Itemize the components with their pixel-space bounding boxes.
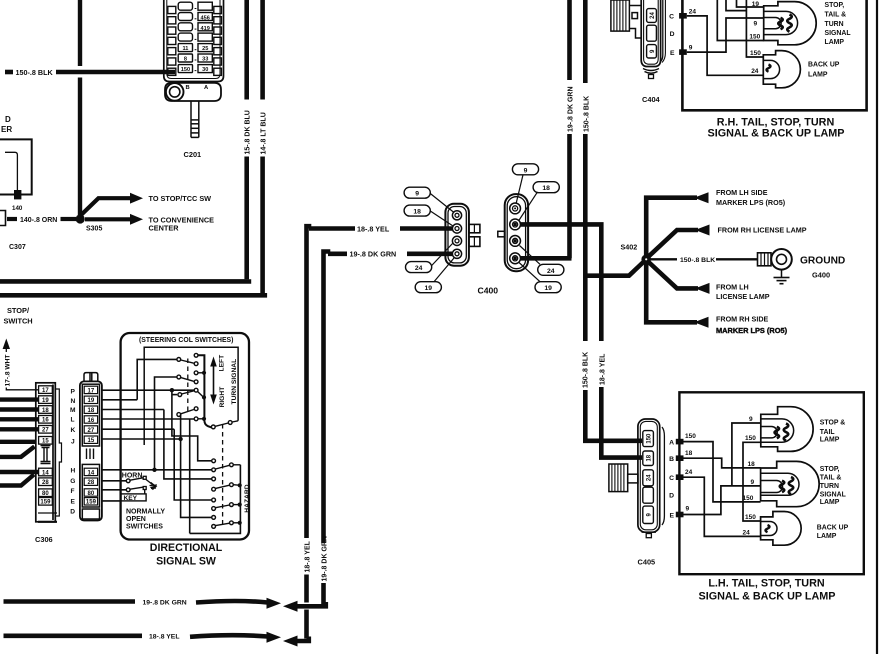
lamp LH stop/tail/turn xyxy=(761,461,820,506)
svg-text:24: 24 xyxy=(689,9,697,16)
key switch contact xyxy=(126,488,130,492)
svg-text:C: C xyxy=(669,14,674,21)
svg-text:STOP,: STOP, xyxy=(825,2,845,9)
key blade xyxy=(130,487,143,489)
callout 9 (right) xyxy=(512,164,538,175)
C201 stem xyxy=(191,101,199,137)
C201 fuse values 456 419 25 33 30 xyxy=(201,16,210,73)
svg-text:19: 19 xyxy=(42,398,49,404)
wire row M from connector xyxy=(102,409,164,411)
turn contact c8 xyxy=(178,393,182,397)
wire 18-.8 YEL (right segment to pin) xyxy=(400,226,452,231)
wire with right arrowhead xyxy=(196,601,268,603)
svg-text:80: 80 xyxy=(88,491,95,497)
hazard pair 4 contacts xyxy=(212,516,216,520)
svg-text:18-.8 YEL: 18-.8 YEL xyxy=(599,353,606,385)
stub P riser to contact c8 xyxy=(172,394,177,396)
wire 19-.8 DK GRN vertical from top xyxy=(567,0,572,80)
terminal 140 black square xyxy=(14,190,21,199)
key contact drop wire xyxy=(144,490,146,494)
svg-text:LEFT: LEFT xyxy=(219,354,226,372)
svg-text:TURN: TURN xyxy=(825,21,844,28)
junction dot riser-J xyxy=(178,437,182,441)
connector C400 female half xyxy=(505,194,528,271)
wire branch FROM RH LICENSE LAMP xyxy=(648,230,698,257)
svg-text:E: E xyxy=(670,50,675,57)
turn pivot contact xyxy=(211,425,215,429)
svg-text:16: 16 xyxy=(88,418,95,424)
C201 tiny row letters xyxy=(195,9,197,71)
svg-text:RIGHT: RIGHT xyxy=(219,386,226,408)
riser H to turn contact c5 xyxy=(155,377,177,470)
svg-text:H: H xyxy=(71,467,76,474)
wire to ground G400 xyxy=(650,258,677,260)
key fixed contact square xyxy=(143,487,146,490)
svg-text:11: 11 xyxy=(182,46,188,52)
backup lamp filament xyxy=(767,65,771,72)
wire 19-.8 DK GRN bottom corner with arrowhead xyxy=(296,602,326,606)
svg-text:9: 9 xyxy=(686,505,690,512)
svg-text:G400: G400 xyxy=(812,270,830,279)
wire 19-.8 DK GRN from C400 left pin4 (left segment) xyxy=(328,252,347,257)
KEY box xyxy=(121,494,146,501)
mechanical link dashed (hazard) xyxy=(222,424,224,526)
splice S305 xyxy=(76,214,85,223)
turn contact c3 xyxy=(194,362,198,366)
upper cell group xyxy=(82,384,99,446)
svg-text:STOP/: STOP/ xyxy=(7,306,29,315)
C201 fuse cells middle column xyxy=(178,2,192,72)
svg-text:24: 24 xyxy=(751,68,759,75)
connector C400 male half xyxy=(445,204,469,266)
svg-text:17: 17 xyxy=(88,388,95,394)
key bars between groups xyxy=(87,449,94,460)
C400 male pin 1 xyxy=(452,211,461,220)
lamp labels xyxy=(817,419,849,540)
svg-text:C400: C400 xyxy=(478,286,499,296)
svg-text:16: 16 xyxy=(42,418,49,424)
svg-text:14-.8 LT BLU: 14-.8 LT BLU xyxy=(260,112,267,154)
junction dot riser-H xyxy=(152,468,156,472)
svg-text:15: 15 xyxy=(42,439,49,445)
svg-text:A: A xyxy=(669,439,674,446)
svg-text:456: 456 xyxy=(201,16,210,22)
svg-text:TAIL &: TAIL & xyxy=(825,12,847,19)
riser P down to hazard p1 upper xyxy=(172,390,212,461)
wire vertical at x=80 upper segment xyxy=(78,0,82,66)
wire row P from connector xyxy=(102,389,195,391)
wire row L from connector xyxy=(102,418,195,420)
svg-text:MARKER LPS (RO5): MARKER LPS (RO5) xyxy=(716,326,788,335)
svg-text:E: E xyxy=(71,498,76,505)
blade c2-c3 xyxy=(181,360,194,363)
C400 male keying tabs xyxy=(469,224,480,232)
C201 index circle xyxy=(166,83,184,101)
svg-text:24: 24 xyxy=(650,12,656,19)
svg-text:SIGNAL SW: SIGNAL SW xyxy=(156,556,216,568)
C400 female pin 4 xyxy=(510,253,521,264)
pivot blade xyxy=(215,423,228,426)
svg-text:419: 419 xyxy=(201,26,210,32)
C400 female pin 3 xyxy=(510,236,521,247)
C201 lower shell with index hole xyxy=(165,83,221,101)
svg-text:E: E xyxy=(669,512,674,519)
wire row H from connector to hazard xyxy=(102,469,212,471)
ground symbol xyxy=(781,270,783,278)
svg-text:159: 159 xyxy=(86,500,97,506)
wire row J from connector xyxy=(102,438,181,440)
svg-text:150: 150 xyxy=(749,33,760,40)
svg-text:D: D xyxy=(670,31,675,38)
wire into C306 pin 18 xyxy=(0,407,39,411)
svg-text:9: 9 xyxy=(689,45,693,52)
blade c9-c10 xyxy=(181,410,194,414)
svg-text:140-.8 ORN: 140-.8 ORN xyxy=(20,217,57,224)
svg-text:9: 9 xyxy=(754,21,758,28)
svg-text:LAMP: LAMP xyxy=(825,39,845,46)
svg-text:14: 14 xyxy=(88,470,95,476)
turn signal direction arrow xyxy=(213,363,215,398)
svg-text:CENTER: CENTER xyxy=(149,223,180,232)
wire 19-.8 DK GRN lower vertical xyxy=(321,583,326,604)
blade c8-c7 xyxy=(182,391,194,394)
wire stub from top xyxy=(726,0,746,11)
svg-text:D: D xyxy=(70,509,75,516)
svg-text:C405: C405 xyxy=(638,558,656,567)
svg-text:LAMP: LAMP xyxy=(808,72,828,79)
svg-text:150: 150 xyxy=(685,433,696,440)
turn contact c9 xyxy=(177,413,181,417)
svg-text:27: 27 xyxy=(88,428,95,434)
wire 18-.8 YEL to C405 xyxy=(601,387,642,458)
svg-text:OPEN: OPEN xyxy=(126,516,146,523)
svg-text:140: 140 xyxy=(12,205,23,212)
svg-text:KEY: KEY xyxy=(124,495,138,502)
svg-text:27: 27 xyxy=(42,428,49,434)
svg-text:L: L xyxy=(71,417,75,424)
C400 female keying tab xyxy=(498,231,505,237)
riser L down to hazard return bus xyxy=(189,419,191,533)
riser M-row corner down to hazard p2 xyxy=(164,410,212,479)
horn fixed contact square xyxy=(143,476,146,479)
svg-text:15: 15 xyxy=(88,438,95,444)
inner frame xyxy=(144,347,238,445)
svg-text:LICENSE LAMP: LICENSE LAMP xyxy=(716,292,770,301)
wire 150-.8 BLK lower vertical to C405 xyxy=(585,390,642,441)
svg-text:18: 18 xyxy=(413,209,421,216)
component box at left edge (cut off) xyxy=(0,139,32,194)
wire 18-.8 YEL bottom left xyxy=(4,633,143,638)
svg-text:L.H. TAIL, STOP, TURN: L.H. TAIL, STOP, TURN xyxy=(708,578,825,590)
svg-text:B: B xyxy=(186,85,190,91)
C306 cells column xyxy=(39,386,53,505)
svg-text:C404: C404 xyxy=(642,95,661,104)
svg-text:19-.8 DK GRN: 19-.8 DK GRN xyxy=(350,250,397,259)
svg-text:K: K xyxy=(71,427,76,434)
wire 19-.8 DK GRN corner down xyxy=(324,252,331,544)
turn contact c4 + stub to bus xyxy=(194,371,198,375)
wire 14-.8 LT BLU vertical + corner to left xyxy=(260,0,265,100)
svg-text:159: 159 xyxy=(40,500,51,506)
hazard pair 1 contacts xyxy=(212,459,216,463)
wire 150 from top xyxy=(717,0,763,41)
svg-text:LAMP: LAMP xyxy=(820,437,840,444)
C400 female pin 2 xyxy=(510,219,521,230)
wire vertical at x=80 lower segment to S305 xyxy=(78,78,82,217)
keying tab on top xyxy=(84,373,98,382)
callout 9 (left) xyxy=(404,187,430,198)
svg-text:SIGNAL: SIGNAL xyxy=(825,30,851,37)
svg-text:9: 9 xyxy=(415,191,419,198)
svg-text:B: B xyxy=(669,456,674,463)
directional signal switch outer box xyxy=(121,333,249,540)
svg-text:9: 9 xyxy=(751,479,755,486)
page border right xyxy=(876,0,878,654)
C306 cell numbers xyxy=(40,388,51,506)
wire Y-branch below pin 14 xyxy=(0,475,34,486)
wire 150-.8 BLK vertical from top xyxy=(583,0,588,83)
C400 female pin 1 xyxy=(510,203,521,214)
svg-text:24: 24 xyxy=(743,529,751,536)
callout 18 (right) xyxy=(533,182,559,193)
C400 male pin 4 xyxy=(452,249,461,258)
C201 fuse cells right column xyxy=(198,2,212,72)
C404 cells xyxy=(647,9,657,58)
svg-text:SIGNAL & BACK UP LAMP: SIGNAL & BACK UP LAMP xyxy=(708,127,845,139)
wire branch FROM LH SIDE MARKER xyxy=(646,198,697,256)
ring terminal xyxy=(758,253,772,266)
pivot contact right xyxy=(228,421,232,425)
svg-text:19-.8 DK GRN: 19-.8 DK GRN xyxy=(143,599,187,606)
svg-text:S402: S402 xyxy=(621,243,638,252)
svg-text:19: 19 xyxy=(425,285,433,292)
svg-text:TO STOP/TCC SW: TO STOP/TCC SW xyxy=(149,194,212,203)
lamp filaments xyxy=(778,18,783,29)
wire 150 BLK branch to S402 xyxy=(585,261,645,276)
splice S402 xyxy=(641,254,651,264)
wire 19 from top xyxy=(737,0,764,7)
turn signal bus xyxy=(198,355,211,427)
svg-text:8: 8 xyxy=(184,56,187,62)
wire 150 branch to backup lamp xyxy=(746,0,763,57)
wire 19-.8 DK GRN (right segment to pin) xyxy=(407,252,452,257)
connector C307 edge bracket xyxy=(0,211,6,226)
callout 24 (right) xyxy=(538,264,564,275)
svg-text:150: 150 xyxy=(181,67,190,73)
wire 15-.8 DK BLU vertical + corner to left xyxy=(244,0,249,100)
lamp LH back up xyxy=(761,512,802,546)
callout 19 (right) xyxy=(535,282,561,293)
C400 male pin 3 xyxy=(452,236,461,245)
svg-text:SIGNAL: SIGNAL xyxy=(820,492,846,499)
wire C400 female pin4 to vertical xyxy=(520,256,572,261)
cell numbers xyxy=(86,388,97,505)
wire 18-.8 YEL below crossover xyxy=(304,610,309,639)
svg-text:150: 150 xyxy=(647,433,653,444)
wire row K from connector xyxy=(102,428,174,430)
wire 9 riser to lamp1 xyxy=(732,423,761,486)
wire with right arrowhead xyxy=(190,635,268,637)
svg-text:19: 19 xyxy=(88,398,95,404)
horn switch contact xyxy=(126,479,130,483)
svg-text:19: 19 xyxy=(544,285,552,292)
svg-text:G: G xyxy=(70,478,75,485)
horn blade xyxy=(130,478,143,480)
svg-text:150-.8 BLK: 150-.8 BLK xyxy=(582,352,589,388)
svg-text:24: 24 xyxy=(685,469,693,476)
svg-text:18: 18 xyxy=(88,408,95,414)
wire arrow TO STOP/TCC SW xyxy=(80,198,131,216)
turn contact c6 xyxy=(194,380,198,384)
svg-text:N: N xyxy=(71,398,76,405)
riser K down to hazard p3 upper xyxy=(174,429,212,500)
svg-text:FROM LH: FROM LH xyxy=(716,282,749,291)
svg-text:14: 14 xyxy=(42,470,49,476)
wire into C306 pin 14 xyxy=(0,470,39,474)
wire into C306 pin 15 xyxy=(0,440,36,444)
svg-text:24: 24 xyxy=(547,268,555,275)
svg-text:M: M xyxy=(70,407,76,414)
svg-text:TAIL: TAIL xyxy=(820,429,835,436)
wire row N from connector xyxy=(102,399,137,401)
wire 140-.8 ORN to splice xyxy=(61,217,77,221)
wire 140-.8 ORN stub xyxy=(7,217,17,221)
svg-text:TURN: TURN xyxy=(820,483,839,490)
connector C404 body xyxy=(641,0,665,79)
callout 18 (left) xyxy=(404,205,430,216)
C400 male pin 2 xyxy=(452,224,461,233)
turn contact c5 xyxy=(177,375,181,379)
hazard pair 3 contacts xyxy=(212,498,216,502)
turn contact c11 + stub to bus dot xyxy=(194,417,198,421)
lamp1 filaments xyxy=(775,427,780,438)
svg-text:33: 33 xyxy=(202,56,208,62)
svg-text:25: 25 xyxy=(202,46,208,52)
lamp RH back up xyxy=(763,51,800,88)
wire 18-.8 YEL from C400 left pin2 (left segment) xyxy=(309,226,355,231)
svg-text:150-.8 BLK: 150-.8 BLK xyxy=(16,68,54,77)
svg-text:24: 24 xyxy=(415,265,423,272)
svg-text:FROM RH SIDE: FROM RH SIDE xyxy=(716,315,769,324)
wire 18-.8 YEL corner down xyxy=(307,226,312,538)
svg-text:LAMP: LAMP xyxy=(820,499,840,506)
blade c5-c6 xyxy=(181,378,194,382)
turn contact c7 feed + stub to bus dot xyxy=(194,388,198,392)
svg-text:19: 19 xyxy=(752,1,760,8)
svg-text:150-.8 BLK: 150-.8 BLK xyxy=(583,96,590,132)
connector C201 fuse block xyxy=(164,0,224,82)
wire 18-.8 YEL lower vertical xyxy=(304,575,309,603)
wire thin inside box to terminal 140 xyxy=(5,152,17,190)
C405 harness side hatched block xyxy=(609,464,638,492)
svg-text:150: 150 xyxy=(745,435,756,442)
wire branch FROM RH SIDE MARKER xyxy=(646,263,697,323)
svg-text:17: 17 xyxy=(42,388,49,394)
pivot link to inner frame xyxy=(232,421,238,422)
svg-text:SWITCHES: SWITCHES xyxy=(126,523,163,530)
lower cell group xyxy=(82,464,99,507)
svg-text:17-.8 WHT: 17-.8 WHT xyxy=(4,355,11,387)
svg-text:DIRECTIONAL: DIRECTIONAL xyxy=(150,542,223,554)
wire 150-.8 BLK stub xyxy=(5,70,13,75)
C201 pin cavities left column xyxy=(168,6,176,75)
wire 18-.8 YEL bottom corner with arrowhead xyxy=(296,637,309,642)
wire row G from connector to horn switch xyxy=(102,480,127,482)
C306 I-beam key between groups xyxy=(41,446,51,464)
callout 24 (left) xyxy=(406,262,432,273)
wire 19-.8 DK GRN bottom left xyxy=(4,599,136,604)
connector C306 switch-side half with pin letters xyxy=(80,381,102,520)
svg-text:24: 24 xyxy=(647,474,653,481)
C404 harness side hatched block xyxy=(611,0,641,38)
turn contact c2 xyxy=(177,358,181,362)
svg-text:C306: C306 xyxy=(35,535,53,544)
svg-text:28: 28 xyxy=(42,480,49,486)
svg-text:18-.8 YEL: 18-.8 YEL xyxy=(305,540,312,572)
svg-text:18-.8 YEL: 18-.8 YEL xyxy=(357,224,390,233)
svg-text:150-.8 BLK: 150-.8 BLK xyxy=(680,257,715,264)
horn momentary chassis symbol xyxy=(146,480,153,485)
C201 pin cavities far right column xyxy=(214,6,222,75)
svg-text:FROM RH LICENSE LAMP: FROM RH LICENSE LAMP xyxy=(718,226,807,235)
svg-text:P: P xyxy=(71,389,76,396)
wire branch FROM LH LICENSE LAMP xyxy=(648,262,698,289)
lamp labels STOP TAIL TURN SIGNAL LAMP xyxy=(808,2,851,79)
svg-text:15-.8 DK BLU: 15-.8 DK BLU xyxy=(244,110,251,154)
svg-text:C: C xyxy=(669,475,674,482)
L.H. box outline xyxy=(679,392,863,574)
wire 17-.8 WHT up-arrow xyxy=(3,339,10,350)
svg-text:S305: S305 xyxy=(86,226,102,233)
svg-text:MARKER LPS (RO5): MARKER LPS (RO5) xyxy=(716,198,786,207)
svg-text:SWITCH: SWITCH xyxy=(4,317,33,326)
svg-text:150: 150 xyxy=(745,514,756,521)
svg-text:28: 28 xyxy=(88,480,95,486)
svg-text:LAMP: LAMP xyxy=(817,533,837,540)
pin letters P N M L K J H G F E D xyxy=(70,389,76,516)
junction dot riser-P xyxy=(170,388,174,392)
R.H. box outline xyxy=(682,0,866,110)
svg-text:19-.8 DK GRN: 19-.8 DK GRN xyxy=(322,536,329,582)
svg-text:STOP &: STOP & xyxy=(820,419,845,426)
svg-text:HAZARD: HAZARD xyxy=(244,484,251,512)
wire into C306 pin 16 xyxy=(0,417,39,421)
wire 18-.8 YEL from C400 female pin2 xyxy=(520,224,601,341)
svg-text:ER: ER xyxy=(1,125,12,134)
svg-text:J: J xyxy=(71,439,75,446)
wire row E from connector to key box xyxy=(102,500,121,502)
svg-text:D: D xyxy=(669,492,674,499)
wire 17 WHT into C306 pin 17 xyxy=(6,388,38,390)
svg-text:150: 150 xyxy=(743,495,754,502)
hazard bus right and bottom return xyxy=(190,465,241,534)
lamp LH stop & tail xyxy=(761,407,813,452)
C201 fuse values 11 8 150 xyxy=(181,46,190,73)
svg-text:BACK UP: BACK UP xyxy=(817,524,849,531)
svg-text:18: 18 xyxy=(685,450,693,457)
svg-text:FROM LH SIDE: FROM LH SIDE xyxy=(716,188,768,197)
svg-text:30: 30 xyxy=(202,67,208,73)
svg-text:BACK UP: BACK UP xyxy=(808,62,840,69)
wire 150 branch lamp1/backup xyxy=(743,442,761,521)
svg-text:18: 18 xyxy=(42,408,49,414)
wire arrow TO CONVENIENCE CENTER xyxy=(85,217,131,221)
svg-text:9: 9 xyxy=(749,416,753,423)
svg-text:STOP,: STOP, xyxy=(820,466,840,473)
wire into C306 pin 19 xyxy=(0,397,39,401)
backup lamp filament xyxy=(766,525,770,532)
svg-text:18-.8 YEL: 18-.8 YEL xyxy=(149,634,179,641)
